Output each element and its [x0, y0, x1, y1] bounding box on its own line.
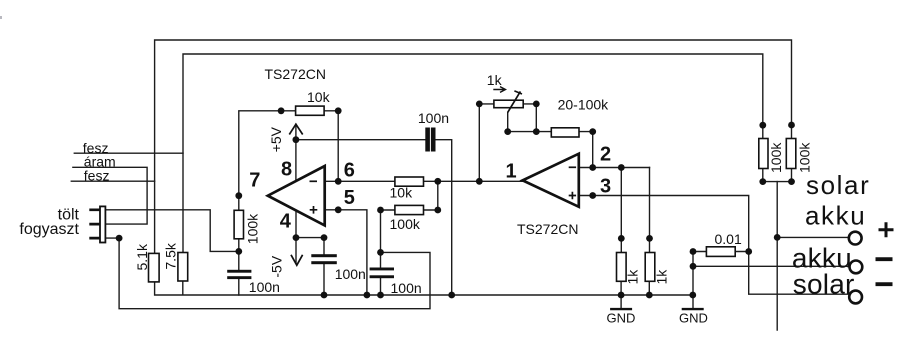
ground GND2 [679, 309, 708, 325]
node: 0.01 right dot [745, 248, 752, 255]
svg-text:0.01: 0.01 [715, 231, 742, 247]
svg-text:20-100k: 20-100k [558, 96, 610, 112]
node: C4 bottom on rail1 [377, 292, 384, 299]
node: wiper bottom dot [504, 128, 511, 135]
node: 20-100k right dot [589, 128, 596, 135]
wire: 1k bottoms to GND1 [621, 281, 649, 308]
svg-text:1k: 1k [654, 269, 670, 285]
node: pin3 lead dot [589, 192, 596, 199]
node: 1k first top dot [618, 235, 625, 242]
svg-text:100n: 100n [249, 279, 280, 295]
wire: fesz2 lead [71, 180, 154, 182]
node: right 100k bottom dot [788, 178, 795, 185]
svg-text:GND: GND [607, 310, 636, 325]
wire: +5V pin8 vertical [295, 124, 297, 181]
node: rail1 end / GND2 [689, 292, 696, 299]
wire: solar minus line [749, 252, 850, 295]
svg-text:TS272CN: TS272CN [265, 66, 326, 82]
node: 100k mid left lead dot [377, 207, 384, 214]
node: 0.01 left dot [690, 248, 697, 255]
node: right 100k top dot [788, 122, 795, 129]
svg-text:6: 6 [344, 160, 355, 182]
node: 1k first bottom on rail1 [618, 292, 625, 299]
svg-text:akku: akku [805, 200, 866, 230]
wire: right 100k pair bottoms joined [763, 169, 792, 182]
resistor 1k (first) [617, 253, 627, 282]
wire: op2 pin2 line [579, 167, 650, 169]
svg-text:100n: 100n [335, 266, 366, 282]
resistor 10k (middle) [395, 177, 424, 186]
wire: 100k mid leads [381, 181, 438, 210]
node: C2 bottom on rail1 [321, 292, 328, 299]
svg-text:fesz: fesz [84, 168, 110, 184]
connector plug (tolt/fogyaszt) [89, 206, 105, 242]
svg-text:-5V: -5V [269, 255, 285, 277]
svg-text:GND: GND [679, 310, 708, 325]
wire: 20-100k right lead down to pin2 line [579, 132, 593, 168]
resistor 100k (right pair, left) [759, 139, 768, 169]
power -5V arrow [291, 255, 303, 265]
wire: rail1 ground rail [155, 281, 693, 295]
node: akku plus junction [774, 234, 781, 241]
wire: aram lead down to connector pin2 [73, 167, 147, 224]
plus sign for akku terminal [879, 222, 894, 237]
svg-text:7.5k: 7.5k [163, 242, 179, 269]
wire: 1k resistor drops from pin2 line [621, 168, 649, 253]
node: node A [377, 249, 384, 256]
svg-text:100k: 100k [245, 213, 261, 244]
resistor 20-100k [551, 128, 579, 137]
resistor 100k (vertical at op1) [234, 210, 243, 239]
wire: connector pin1 to 100k bottom node [106, 210, 239, 252]
capacitor 100n C2 plates (at pin4) [311, 254, 337, 257]
svg-text:8: 8 [281, 159, 292, 181]
node: 100k bottom / C1 top [235, 248, 242, 255]
node: pin7 feedback junction [235, 192, 242, 199]
terminal akku - [850, 261, 863, 274]
wire: 10k right lead down to inverting line (pin6) [324, 111, 338, 182]
wire: op1 pin4 to -5V arrow and 100n cap [296, 210, 324, 295]
node: connector pin3 dot [116, 235, 123, 242]
node: 100k mid right lead dot [434, 207, 441, 214]
node: pin6 junction [335, 178, 342, 185]
wire: pot wiper to bottom line [508, 112, 552, 131]
wire: akku plus tap down [776, 182, 778, 330]
node: left 100k bottom dot [759, 178, 766, 185]
wire: 0.01 leads [693, 251, 749, 253]
svg-text:7: 7 [249, 170, 260, 192]
wire: connector pin3 ground loop to node A [106, 238, 430, 309]
resistor 1k (second) [645, 253, 655, 282]
resistor 5.1k [149, 253, 160, 282]
wire: akku minus line [693, 265, 849, 267]
svg-text:4: 4 [280, 211, 292, 233]
svg-text:100k: 100k [797, 142, 813, 173]
node: C3 drop on rail1 [448, 292, 455, 299]
svg-text:1k: 1k [625, 269, 641, 285]
wire: op1 non-inverting input down to rail [325, 210, 367, 295]
wire: akku plus line [777, 236, 848, 238]
node: pin4 dot [293, 234, 300, 241]
svg-text:fogyaszt: fogyaszt [19, 221, 79, 238]
svg-text:3: 3 [600, 176, 611, 198]
node: pin5 wire dot [335, 206, 342, 213]
node: pot right dot [533, 101, 540, 108]
svg-text:100n: 100n [391, 280, 422, 296]
resistor 100k (right pair, right) [786, 139, 796, 169]
node: 10k/100k right junction [434, 178, 441, 185]
op-amp U1B (pins 1,2,3) [523, 154, 579, 207]
wire: fesz1 lead [74, 152, 183, 154]
terminal akku + [849, 232, 862, 245]
capacitor 100n C4 plates (node A) [370, 268, 394, 271]
svg-text:100k: 100k [390, 216, 421, 232]
node: 1k second top dot [646, 235, 653, 242]
node: 100n C2 top dot [321, 234, 328, 241]
op-amp U1A (pins 7,8,4,6,5) [268, 166, 325, 225]
svg-text:10k: 10k [307, 89, 331, 105]
svg-text:100n: 100n [418, 110, 449, 126]
svg-text:+5V: +5V [268, 126, 284, 152]
node: pot left dot [476, 101, 483, 108]
power +5V arrow [289, 124, 302, 134]
node: output line / pot junction [476, 178, 483, 185]
node: 10k left lead dot [278, 107, 285, 114]
capacitor 100n C3 plates (vertical, +5V rail) [425, 128, 430, 152]
node: 10k right lead dot [335, 107, 342, 114]
speck artifact top-left [0, 16, 2, 19]
wire: 100k vertical resistor through-wire to 100n cap1 [238, 210, 240, 295]
capacitor 100n C1 plates (below 100k vertical) [227, 270, 251, 273]
wire: node A vertical through 100n cap [380, 210, 382, 295]
svg-text:1: 1 [506, 161, 517, 183]
node: 1k second bottom on rail1 [646, 292, 653, 299]
ground GND1 [607, 309, 636, 325]
wire: +5V rail to 100n decoupling cap [296, 140, 452, 295]
svg-text:solar: solar [793, 269, 855, 300]
svg-text:5: 5 [344, 187, 355, 209]
wire: op1 inverting line to op2 output [325, 180, 523, 182]
node: pin5 drop on rail1 [364, 292, 371, 299]
pot adjust arrow [493, 87, 505, 93]
pot wiper diagonal [508, 91, 522, 113]
resistor 100k (middle) [395, 205, 424, 214]
svg-text:2: 2 [600, 143, 611, 165]
node: pin2 1k junction [618, 164, 625, 171]
svg-text:100k: 100k [768, 142, 784, 173]
node: pot right bottom dot [533, 128, 540, 135]
node: akku minus junction [690, 263, 697, 270]
wire: pot 1k left lead down to output line [479, 104, 494, 181]
wire: 10k feedback left lead down to pin7 node [239, 111, 296, 211]
wire: outer sense loop top (fesz2 net to right 100k) [155, 40, 792, 253]
svg-text:1k: 1k [487, 72, 503, 88]
minus sign for akku terminal [876, 257, 893, 261]
wire: op2 pin3 line to 0.01 right lead [579, 196, 749, 252]
svg-text:10k: 10k [390, 185, 414, 201]
resistor 10k (feedback, top) [296, 106, 325, 115]
capacitor 0.01 box [706, 247, 735, 257]
svg-text:TS272CN: TS272CN [517, 221, 578, 237]
node: +5V rail junction [293, 136, 300, 143]
wire: pot 1k right lead down [523, 104, 536, 132]
wire: inner sense loop top (fesz1 net to left 100k) [183, 54, 763, 253]
svg-text:5.1k: 5.1k [134, 243, 150, 270]
node: left 100k top dot [759, 122, 766, 129]
terminal solar - [849, 291, 862, 304]
potentiometer 1k body [494, 100, 523, 108]
wire: akku minus node vertical to GND2 [692, 252, 694, 309]
svg-text:solar: solar [806, 170, 870, 200]
minus sign for solar terminal [876, 282, 893, 286]
resistor 7.5k [178, 253, 188, 282]
node: pin2 pot junction [589, 164, 596, 171]
